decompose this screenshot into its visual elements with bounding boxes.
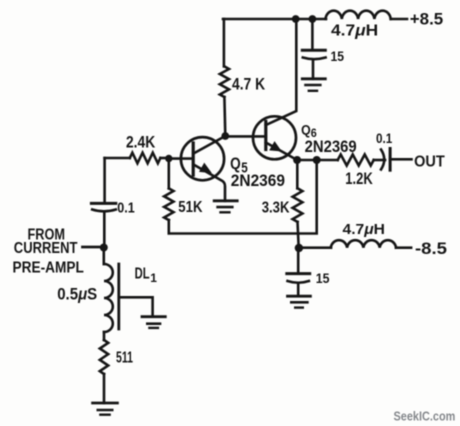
- wire +8.5 power rail: [223, 18, 407, 21]
- svg-text:511: 511: [116, 350, 133, 367]
- wire Q6 collector lead: [266, 19, 297, 125]
- svg-text:15: 15: [331, 48, 345, 64]
- resistor R 4.7K: [220, 66, 229, 97]
- svg-text:4.7μH: 4.7μH: [343, 222, 386, 238]
- wire cap to input node: [103, 212, 106, 248]
- wire 511 to ground: [103, 374, 106, 403]
- svg-text:2.4K: 2.4K: [126, 134, 155, 152]
- svg-text:4.7 K: 4.7 K: [232, 75, 266, 94]
- wire -8.5 rail: [299, 246, 411, 249]
- transistor Q5 circle: [181, 137, 224, 180]
- svg-text:51K: 51K: [178, 199, 203, 216]
- svg-text:Q: Q: [301, 123, 311, 138]
- wire Q5 emitter lead: [194, 165, 226, 201]
- wire bottom bypass cap top lead: [297, 248, 300, 274]
- wire Q6 emitter rail: [297, 159, 338, 162]
- wire Q6 emitter lead: [266, 143, 297, 161]
- ground Q5 emitter: [214, 199, 237, 202]
- ground bottom bypass: [288, 295, 311, 298]
- svg-text:0.5μS: 0.5μS: [57, 286, 97, 304]
- svg-text:1: 1: [150, 271, 157, 285]
- wire 4.7K bottom lead: [223, 97, 227, 136]
- capacitor C 0.1 input: [91, 202, 115, 205]
- wire coil to 511: [103, 332, 106, 340]
- inductor 4.7uH bottom: [331, 240, 396, 247]
- svg-text:DL: DL: [135, 265, 150, 282]
- wire Q5 collector lead: [194, 136, 226, 154]
- wire 2.4K right lead: [160, 157, 168, 160]
- node dot input: [100, 244, 108, 252]
- svg-text:OUT: OUT: [414, 154, 445, 171]
- svg-text:1.2K: 1.2K: [345, 170, 372, 188]
- wire bypass cap top lead: [311, 19, 314, 50]
- wire Q5 collector to Q6 base: [225, 135, 265, 138]
- wire feedback 51K bottom to emitter node: [169, 160, 317, 234]
- wire 3.3K bottom lead: [298, 222, 299, 248]
- wire input node to delay line: [103, 248, 106, 265]
- svg-text:2N2369: 2N2369: [305, 138, 357, 156]
- svg-text:-8.5: -8.5: [415, 240, 447, 258]
- resistor R 1.2K: [338, 155, 374, 166]
- arrow Q5 emitter: [200, 164, 211, 173]
- inductor 4.7uH top: [326, 11, 391, 19]
- node dot Q5 collector / Q6 base: [221, 132, 229, 140]
- wire bottom bypass cap bottom lead: [297, 284, 300, 296]
- svg-text:SeekIC.com: SeekIC.com: [394, 410, 456, 424]
- svg-text:Q: Q: [230, 154, 241, 173]
- ground 511: [93, 402, 118, 405]
- node dot rail/bypass cap: [309, 15, 317, 23]
- svg-text:2N2369: 2N2369: [231, 171, 285, 190]
- wire input dash: [83, 246, 99, 249]
- wire OUT lead: [390, 158, 411, 161]
- delay line DL1 coil: [104, 264, 113, 332]
- wire 4.7K top lead: [223, 19, 226, 66]
- arrow Q6 emitter: [270, 142, 281, 151]
- svg-text:CURRENT: CURRENT: [14, 240, 78, 257]
- wire input coupling branch: [103, 158, 106, 203]
- capacitor C 15 top bypass: [302, 49, 325, 52]
- wire Q5 base lead: [169, 157, 193, 160]
- wire 1.2K to cap: [374, 159, 385, 162]
- resistor R 3.3K: [293, 188, 303, 222]
- ground top bypass: [302, 77, 325, 80]
- wire 2.4K left lead: [105, 157, 130, 160]
- svg-text:4.7μH: 4.7μH: [331, 23, 378, 40]
- resistor R 511: [100, 340, 108, 374]
- resistor R 51K: [164, 188, 173, 220]
- node dot emitter/feedback: [313, 156, 321, 164]
- resistor R 2.4K: [130, 153, 161, 164]
- capacitor C 0.1 output: [381, 150, 384, 170]
- transistor Q5 base bar: [192, 143, 195, 175]
- svg-text:0.1: 0.1: [376, 131, 393, 146]
- delay line DL1 bar: [117, 264, 120, 329]
- transistor Q6 base bar: [264, 122, 267, 150]
- wire 3.3K top lead: [296, 160, 299, 188]
- svg-text:3.3K: 3.3K: [262, 199, 290, 216]
- wire bypass cap bottom lead: [312, 61, 315, 79]
- node dot Q5 base: [165, 155, 172, 162]
- wire DL1 tap to ground: [119, 297, 153, 316]
- node dot emitter/3.3K: [293, 156, 301, 164]
- svg-text:15: 15: [316, 270, 330, 286]
- svg-text:+8.5: +8.5: [410, 10, 443, 29]
- wire 51K top lead: [168, 159, 171, 189]
- svg-text:PRE-AMPL: PRE-AMPL: [13, 260, 84, 277]
- node dot rail/Q6 collector: [292, 15, 300, 23]
- transistor Q6 circle: [253, 116, 296, 159]
- ground DL1: [142, 315, 165, 318]
- capacitor C 15 bottom bypass: [287, 272, 310, 275]
- svg-text:0.1: 0.1: [117, 200, 135, 217]
- node dot -8.5 rail: [295, 244, 303, 252]
